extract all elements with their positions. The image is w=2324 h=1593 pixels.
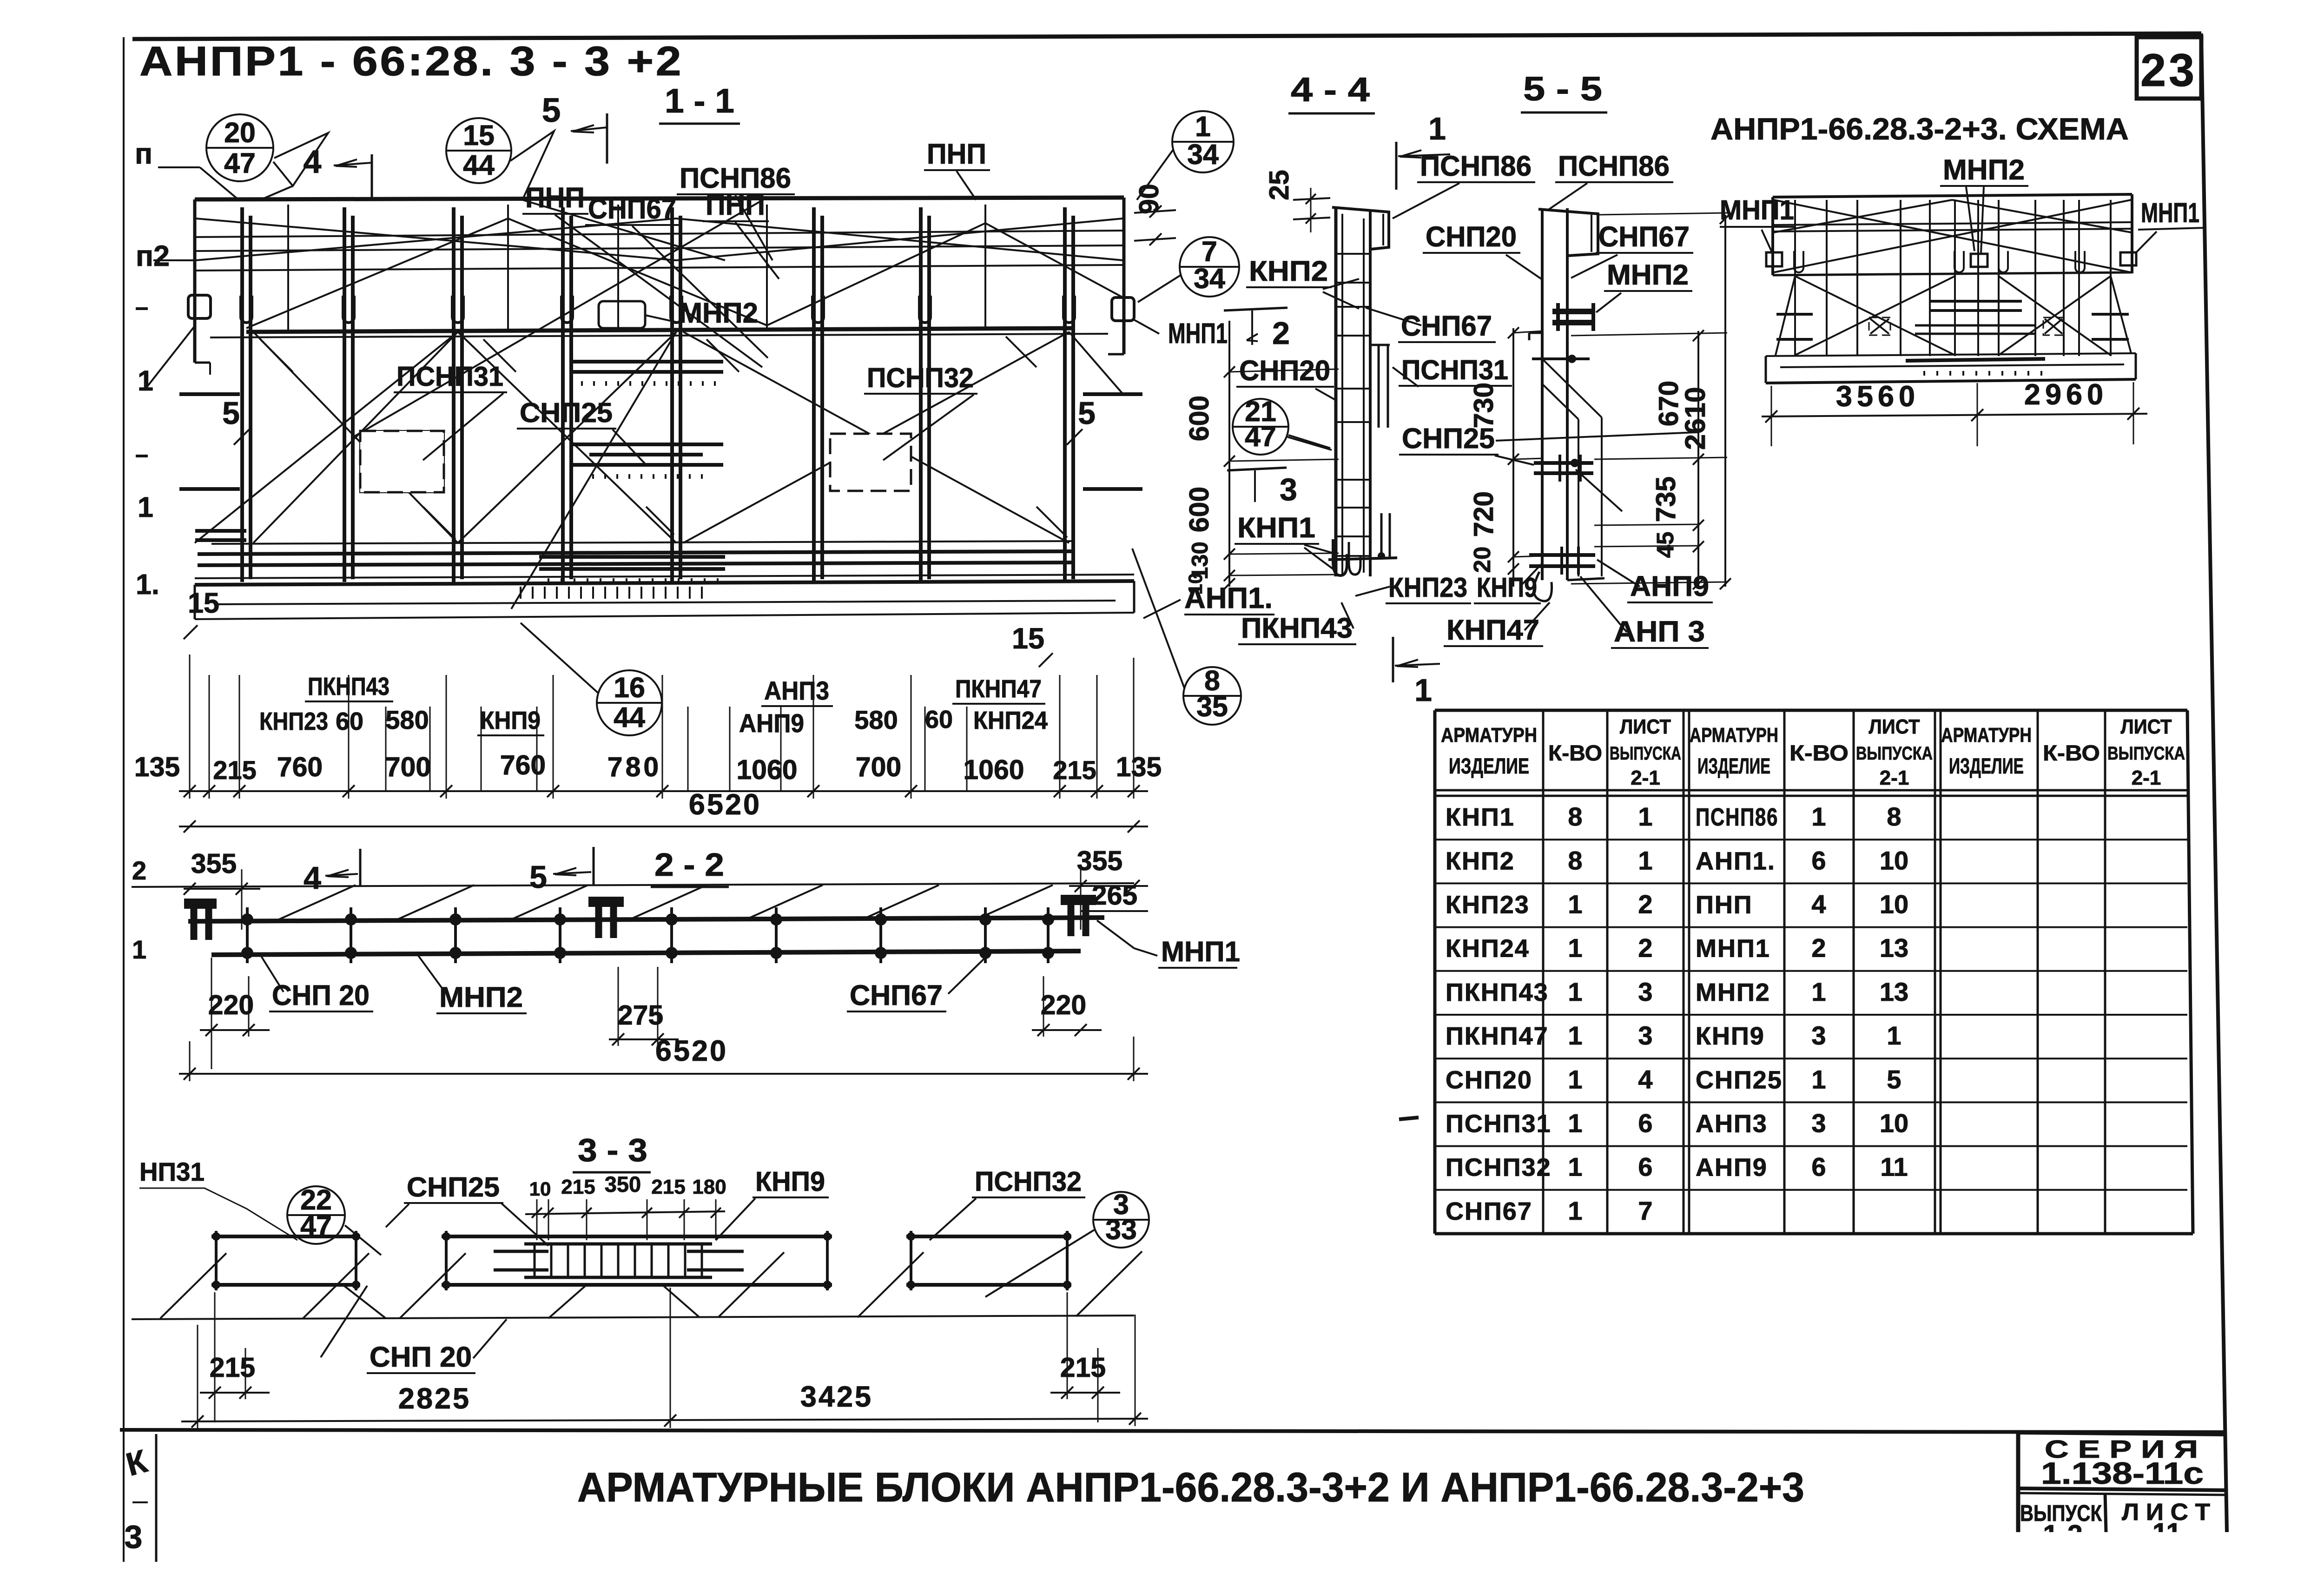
svg-text:2-1: 2-1 <box>2132 767 2161 789</box>
svg-text:1: 1 <box>1568 1108 1582 1137</box>
svg-text:КНП1: КНП1 <box>1237 512 1315 543</box>
svg-text:5: 5 <box>542 92 561 129</box>
position circle 8/35 <box>1183 667 1241 725</box>
circle 21/47 leader <box>1288 435 1330 448</box>
svg-text:760: 760 <box>500 750 546 780</box>
svg-text:МНП2: МНП2 <box>1696 978 1770 1006</box>
svg-text:220: 220 <box>208 990 254 1020</box>
svg-text:3: 3 <box>1811 1108 1826 1137</box>
svg-text:25: 25 <box>1264 170 1294 200</box>
svg-text:1: 1 <box>1568 1152 1582 1182</box>
svg-text:АРМАТУРН: АРМАТУРН <box>1941 724 2032 747</box>
svg-text:АНП3: АНП3 <box>1696 1110 1768 1137</box>
svg-text:4: 4 <box>304 860 321 896</box>
svg-text:5: 5 <box>1887 1064 1901 1094</box>
svg-text:ПСНП86: ПСНП86 <box>1420 150 1532 182</box>
svg-text:КНП2: КНП2 <box>1446 847 1515 875</box>
svg-text:730: 730 <box>1468 383 1499 428</box>
svg-text:1.: 1. <box>136 568 159 600</box>
anchor box left МНП1 <box>188 295 211 318</box>
svg-text:2: 2 <box>1638 933 1652 963</box>
position circle 20/47 <box>206 114 273 181</box>
svg-text:МНП1: МНП1 <box>1161 936 1240 967</box>
section marker 2 <box>1224 308 1287 311</box>
svg-text:15: 15 <box>1012 622 1044 655</box>
svg-text:11: 11 <box>1880 1152 1908 1182</box>
svg-text:АНП3: АНП3 <box>764 676 829 705</box>
svg-text:2: 2 <box>1811 933 1826 963</box>
СНП25 bar cluster mid-center <box>569 443 723 446</box>
4-4 ladder rungs <box>1336 253 1370 255</box>
parts table <box>1433 710 1437 1234</box>
main drawing right end <box>1122 198 1126 354</box>
svg-text:МНП2: МНП2 <box>439 981 523 1013</box>
svg-text:КНП23: КНП23 <box>259 707 328 735</box>
schema verticals <box>1794 200 1796 356</box>
sheet top border <box>132 33 2201 39</box>
svg-text:6: 6 <box>1811 1152 1826 1182</box>
main drawing outer top chord <box>195 198 1124 199</box>
svg-text:20: 20 <box>1469 547 1495 573</box>
svg-text:3: 3 <box>1638 1021 1652 1050</box>
svg-text:23: 23 <box>2140 44 2197 96</box>
2-2 top thin line <box>132 883 1134 887</box>
5-5 right dims 670/735/45/2610 <box>1697 331 1699 587</box>
2-2 hatch diagonals <box>279 885 356 919</box>
svg-text:2610: 2610 <box>1679 387 1711 450</box>
svg-text:КНП9: КНП9 <box>1696 1022 1765 1050</box>
clip bottom of title block <box>2016 1529 2020 1532</box>
3-3 overall dims <box>181 1419 1148 1421</box>
2-2 top chord <box>188 918 1104 921</box>
svg-text:ПНП: ПНП <box>927 138 986 170</box>
dim chain extension lines <box>209 675 210 799</box>
2-2 П-connector right <box>1061 895 1096 905</box>
svg-text:1: 1 <box>138 491 153 523</box>
svg-text:600: 600 <box>1184 487 1215 532</box>
svg-text:НП31: НП31 <box>139 1157 205 1186</box>
overall dim 6520 <box>179 826 1148 827</box>
schema top chord <box>1773 194 2132 197</box>
svg-text:700: 700 <box>385 752 431 782</box>
extra top-band verticals <box>287 205 289 330</box>
svg-text:35: 35 <box>1196 691 1228 722</box>
schema anchor boxes <box>1766 252 1782 266</box>
svg-text:7: 7 <box>1638 1196 1652 1225</box>
svg-text:1: 1 <box>1568 1196 1582 1225</box>
svg-text:13: 13 <box>1880 977 1908 1006</box>
svg-text:3: 3 <box>1811 1021 1826 1050</box>
2-2 bottom chord <box>211 951 1081 955</box>
svg-text:4: 4 <box>304 144 322 180</box>
sheet right border <box>2201 33 2227 1532</box>
svg-text:4: 4 <box>1638 1064 1652 1094</box>
svg-text:1: 1 <box>1568 977 1582 1006</box>
4-4 top flange <box>1332 207 1389 249</box>
schema shallow X in band <box>1774 200 2131 272</box>
position circle 15/44 <box>446 118 511 183</box>
svg-text:МНП2: МНП2 <box>1607 259 1689 291</box>
schema dims 3560/2960 <box>1762 414 2147 416</box>
СНП67 bar cluster upper-center <box>571 360 723 364</box>
svg-text:2 - 2: 2 - 2 <box>654 846 724 883</box>
3-3 right segment <box>906 1235 1071 1238</box>
top band longitudinal bars <box>195 231 1124 237</box>
svg-text:КНП24: КНП24 <box>1446 935 1530 963</box>
svg-text:215: 215 <box>213 755 256 785</box>
position circle 1/34 <box>1172 111 1234 172</box>
svg-text:ПСНП86: ПСНП86 <box>1696 803 1778 831</box>
top band shallow diagonals <box>196 218 676 260</box>
svg-text:8: 8 <box>1887 802 1901 831</box>
5-5 column body <box>1541 208 1544 580</box>
svg-text:1: 1 <box>1887 1021 1901 1050</box>
svg-text:АРМАТУРН: АРМАТУРН <box>1690 724 1778 747</box>
svg-text:16: 16 <box>614 672 645 703</box>
svg-text:2: 2 <box>132 856 146 885</box>
marker 1 bottom 5-5 <box>1418 725 1419 726</box>
svg-text:275: 275 <box>618 1000 663 1031</box>
svg-text:ПСНП31: ПСНП31 <box>1446 1110 1552 1137</box>
svg-text:СНП20: СНП20 <box>1446 1066 1532 1094</box>
svg-text:ИЗДЕЛИЕ: ИЗДЕЛИЕ <box>1449 754 1529 778</box>
main drawing left end <box>193 199 197 363</box>
svg-text:6520: 6520 <box>655 1035 728 1067</box>
svg-text:580: 580 <box>385 705 429 734</box>
svg-text:220: 220 <box>1041 990 1086 1020</box>
leader to circle 20/47 <box>158 166 200 168</box>
4-4 column body <box>1334 207 1338 576</box>
svg-text:ПКНП43: ПКНП43 <box>1241 612 1353 644</box>
svg-text:580: 580 <box>854 705 898 734</box>
svg-text:1: 1 <box>132 935 146 964</box>
svg-text:135: 135 <box>134 752 180 782</box>
dash left of table <box>1399 1117 1419 1119</box>
svg-text:1060: 1060 <box>736 754 797 785</box>
position circle 16/44 <box>597 670 662 735</box>
svg-text:3: 3 <box>125 1519 143 1555</box>
svg-text:1: 1 <box>1568 1021 1582 1050</box>
svg-text:СНП20: СНП20 <box>1426 221 1517 252</box>
svg-text:ПНП: ПНП <box>1696 891 1753 919</box>
svg-text:2-1: 2-1 <box>1631 767 1660 789</box>
svg-text:44: 44 <box>463 149 495 181</box>
bottom-left stamp marks <box>155 1434 158 1562</box>
svg-text:355: 355 <box>1077 846 1122 876</box>
schema hooks <box>1794 251 1803 272</box>
svg-text:1: 1 <box>1811 977 1826 1006</box>
svg-text:СНП67: СНП67 <box>1401 310 1492 342</box>
svg-text:АНП9: АНП9 <box>739 708 804 738</box>
svg-text:АНПР1 - 66:28. 3 - 3 +2: АНПР1 - 66:28. 3 - 3 +2 <box>139 38 683 84</box>
svg-text:135: 135 <box>1116 752 1162 782</box>
svg-text:60: 60 <box>925 706 953 734</box>
lower zone X bracing <box>253 332 458 543</box>
svg-text:1: 1 <box>1568 1064 1582 1094</box>
svg-text:215: 215 <box>1053 755 1096 785</box>
svg-text:720: 720 <box>1468 491 1499 537</box>
svg-text:215: 215 <box>561 1176 595 1198</box>
svg-text:ПСНП32: ПСНП32 <box>1446 1154 1552 1182</box>
svg-text:47: 47 <box>224 147 256 179</box>
vertical rebars with hooks <box>240 207 244 582</box>
svg-text:2960: 2960 <box>2024 378 2108 411</box>
position circle 22/47 (3-3) <box>287 1186 345 1244</box>
5-5 left dims 730/720/20 <box>1512 328 1514 587</box>
sheet bottom border <box>120 1430 2227 1432</box>
svg-text:СНП 20: СНП 20 <box>272 979 370 1011</box>
svg-text:АНП1.: АНП1. <box>1696 847 1776 875</box>
svg-text:ПКНП47: ПКНП47 <box>1446 1022 1549 1050</box>
svg-text:1 - 1: 1 - 1 <box>665 82 734 120</box>
5-5 bottom hook <box>1534 572 1552 601</box>
svg-text:МНП2: МНП2 <box>1943 154 2025 185</box>
svg-text:5: 5 <box>1078 396 1096 431</box>
svg-text:6: 6 <box>1811 846 1826 875</box>
svg-text:700: 700 <box>856 752 901 782</box>
schema center cluster <box>1929 300 2022 303</box>
svg-text:п: п <box>135 138 152 170</box>
svg-text:п2: п2 <box>136 240 170 272</box>
schema lower X bracing <box>1795 276 1955 355</box>
svg-text:К-ВО: К-ВО <box>2043 740 2100 765</box>
4-4 bottom hooks <box>1333 539 1347 575</box>
svg-text:СНП67: СНП67 <box>1598 221 1690 252</box>
3-3 hatch diagonals <box>160 1253 226 1318</box>
marker 1 top (4-4) <box>1395 142 1398 190</box>
svg-text:5 - 5: 5 - 5 <box>1523 70 1602 108</box>
svg-text:1: 1 <box>1638 802 1652 831</box>
svg-text:6520: 6520 <box>689 788 761 821</box>
svg-text:СНП67: СНП67 <box>850 979 943 1011</box>
4-4 right panel ПСНП31 <box>1371 344 1390 346</box>
svg-text:2-1: 2-1 <box>1880 767 1909 789</box>
svg-text:4 - 4: 4 - 4 <box>1291 71 1370 109</box>
svg-text:1060: 1060 <box>963 754 1024 785</box>
svg-text:ВЫПУСКА: ВЫПУСКА <box>2107 743 2185 764</box>
anchor box right МНП1 <box>1112 297 1134 321</box>
svg-text:735: 735 <box>1651 476 1681 522</box>
top band bottom chord <box>246 328 1075 332</box>
svg-text:ИЗДЕЛИЕ: ИЗДЕЛИЕ <box>1949 754 2024 778</box>
svg-text:АНПР1-66.28.3-2+3. СХЕМА: АНПР1-66.28.3-2+3. СХЕМА <box>1710 112 2129 146</box>
svg-text:3560: 3560 <box>1836 380 1920 413</box>
2-2 П-connector middle <box>588 897 624 907</box>
svg-text:СНП25: СНП25 <box>1696 1066 1783 1094</box>
svg-text:ЛИСТ: ЛИСТ <box>2121 715 2172 738</box>
svg-text:ИЗДЕЛИЕ: ИЗДЕЛИЕ <box>1697 754 1770 778</box>
marker 1 bottom (4-4) <box>1392 637 1394 682</box>
3-3 left segment <box>211 1235 360 1238</box>
svg-text:2: 2 <box>1638 889 1652 919</box>
svg-text:КНП9: КНП9 <box>480 707 541 734</box>
svg-text:АНП 3: АНП 3 <box>1614 615 1705 648</box>
svg-text:КНП24: КНП24 <box>973 707 1048 734</box>
svg-text:15: 15 <box>463 119 495 151</box>
svg-text:10: 10 <box>529 1178 551 1200</box>
svg-text:45: 45 <box>1652 532 1678 558</box>
svg-text:КНП23: КНП23 <box>1446 891 1530 919</box>
svg-text:МНП1: МНП1 <box>1696 935 1770 963</box>
svg-text:ЛИСТ: ЛИСТ <box>1869 715 1920 738</box>
svg-text:ВЫПУСКА: ВЫПУСКА <box>1856 743 1933 764</box>
schema dashed boxes <box>1869 317 1890 335</box>
svg-text:13: 13 <box>1880 933 1908 963</box>
3-3 baseline <box>132 1315 1134 1319</box>
4-4 left dims 600/600/130/10 <box>1228 321 1230 587</box>
2-2 П-connector left <box>184 899 217 909</box>
svg-text:4: 4 <box>1811 889 1826 919</box>
svg-text:АНП9: АНП9 <box>1696 1154 1768 1182</box>
svg-text:ЛИСТ: ЛИСТ <box>1620 715 1671 738</box>
svg-text:20: 20 <box>224 117 256 148</box>
svg-text:КНП9: КНП9 <box>755 1166 825 1197</box>
svg-text:2825: 2825 <box>398 1382 471 1415</box>
svg-text:К-ВО: К-ВО <box>1789 740 1849 765</box>
svg-text:КНП1: КНП1 <box>1446 803 1515 831</box>
svg-text:180: 180 <box>692 1176 726 1198</box>
svg-text:МНП2: МНП2 <box>679 297 758 329</box>
svg-text:К-ВО: К-ВО <box>1548 740 1602 765</box>
schema bottom plate <box>1766 353 2136 356</box>
svg-text:ПСНП31: ПСНП31 <box>396 361 503 392</box>
dim chain line <box>179 790 1148 792</box>
svg-text:МНП1: МНП1 <box>1168 317 1228 349</box>
svg-text:15: 15 <box>188 587 219 619</box>
chamfer corner marks <box>260 339 293 372</box>
svg-text:ПСНП32: ПСНП32 <box>867 363 974 393</box>
МНП2 plate detail <box>599 301 645 328</box>
svg-text:215: 215 <box>651 1176 685 1198</box>
svg-text:1: 1 <box>1568 889 1582 919</box>
3-3 ladder detail <box>524 1243 712 1246</box>
svg-text:5: 5 <box>222 396 240 431</box>
position circle 3/33 (3-3) <box>1093 1192 1149 1248</box>
svg-text:10: 10 <box>1880 846 1908 875</box>
svg-text:350: 350 <box>605 1172 641 1196</box>
svg-text:6: 6 <box>1638 1108 1652 1137</box>
bottom-center bar cluster <box>539 555 725 559</box>
svg-text:760: 760 <box>277 752 323 782</box>
svg-text:1: 1 <box>1195 111 1211 142</box>
svg-text:ПКНП43: ПКНП43 <box>1446 978 1549 1006</box>
svg-text:44: 44 <box>614 701 645 733</box>
svg-text:47: 47 <box>1245 421 1276 452</box>
svg-text:ПКНП47: ПКНП47 <box>955 675 1042 703</box>
4-4 right panel lower <box>1380 513 1383 558</box>
svg-text:1: 1 <box>1811 1064 1826 1094</box>
2-2 stirrups <box>246 907 249 963</box>
svg-text:1: 1 <box>1568 933 1582 963</box>
position circle 7/34 <box>1180 237 1239 297</box>
svg-text:ПСНП86: ПСНП86 <box>1558 150 1670 182</box>
svg-text:8: 8 <box>1568 802 1582 831</box>
5-5 МНП2 dumbbells <box>1552 309 1594 314</box>
page number box <box>2137 37 2201 99</box>
svg-text:КНП23: КНП23 <box>1388 572 1467 603</box>
svg-text:1: 1 <box>1638 846 1652 875</box>
svg-text:34: 34 <box>1194 263 1225 294</box>
bottom plate <box>195 581 1134 585</box>
schema side stubs <box>1776 313 1813 316</box>
svg-text:ПСНП32: ПСНП32 <box>975 1166 1082 1197</box>
svg-text:1: 1 <box>1811 802 1826 831</box>
svg-text:60: 60 <box>336 707 363 735</box>
svg-text:10: 10 <box>1184 573 1206 595</box>
svg-text:10: 10 <box>1880 1108 1908 1137</box>
svg-text:34: 34 <box>1187 139 1219 170</box>
svg-text:265: 265 <box>1092 880 1137 911</box>
svg-text:СНП25: СНП25 <box>407 1172 500 1203</box>
sheet left border <box>123 37 125 1562</box>
svg-text:СНП25: СНП25 <box>520 397 613 428</box>
svg-text:355: 355 <box>191 848 237 879</box>
svg-text:3425: 3425 <box>800 1381 873 1413</box>
svg-text:КНП2: КНП2 <box>1249 255 1328 287</box>
svg-text:8: 8 <box>1568 846 1582 875</box>
svg-text:1: 1 <box>1414 673 1432 708</box>
svg-text:ПСНП31: ПСНП31 <box>1401 355 1508 385</box>
dashed opening right ПСНП32 <box>830 434 911 491</box>
svg-text:3: 3 <box>1280 472 1297 507</box>
2-2 dim 6520 <box>179 1073 1148 1075</box>
svg-text:СНП 20: СНП 20 <box>370 1341 472 1373</box>
svg-text:МНП1: МНП1 <box>1720 195 1794 225</box>
extra extension pairs near labels <box>385 707 387 790</box>
svg-text:1.138-11с: 1.138-11с <box>2041 1456 2204 1490</box>
position circle 21/47 <box>1233 399 1288 455</box>
svg-text:3 - 3: 3 - 3 <box>578 1132 647 1168</box>
svg-text:АРМАТУРНЫЕ БЛОКИ АНПР1-66.28: АРМАТУРНЫЕ БЛОКИ АНПР1-66.28.3-3+2 И АНП… <box>577 1464 1804 1510</box>
dashed opening left ПСНП31 <box>360 431 444 492</box>
title block box <box>2016 1433 2020 1532</box>
svg-text:33: 33 <box>1105 1214 1137 1245</box>
svg-text:АРМАТУРН: АРМАТУРН <box>1441 724 1537 747</box>
svg-text:ВЫПУСКА: ВЫПУСКА <box>1610 743 1681 764</box>
bottom plate center texture <box>520 587 522 599</box>
5-5 mid details <box>1529 332 1542 334</box>
3-3 middle segment <box>442 1235 832 1238</box>
svg-text:215: 215 <box>210 1352 255 1383</box>
svg-text:5: 5 <box>529 859 547 895</box>
bottom band chords <box>211 541 1075 544</box>
svg-text:6: 6 <box>1638 1152 1652 1182</box>
svg-text:СНП67: СНП67 <box>1446 1197 1532 1225</box>
svg-text:1: 1 <box>1428 111 1446 146</box>
side stirrup stubs <box>179 392 240 396</box>
section marker 3 <box>1227 468 1287 470</box>
svg-text:3: 3 <box>1638 977 1652 1006</box>
svg-text:780: 780 <box>607 752 661 782</box>
svg-text:600: 600 <box>1184 396 1215 441</box>
svg-text:МНП1: МНП1 <box>2141 198 2199 228</box>
svg-text:10: 10 <box>1880 889 1908 919</box>
svg-text:2: 2 <box>1272 316 1290 351</box>
